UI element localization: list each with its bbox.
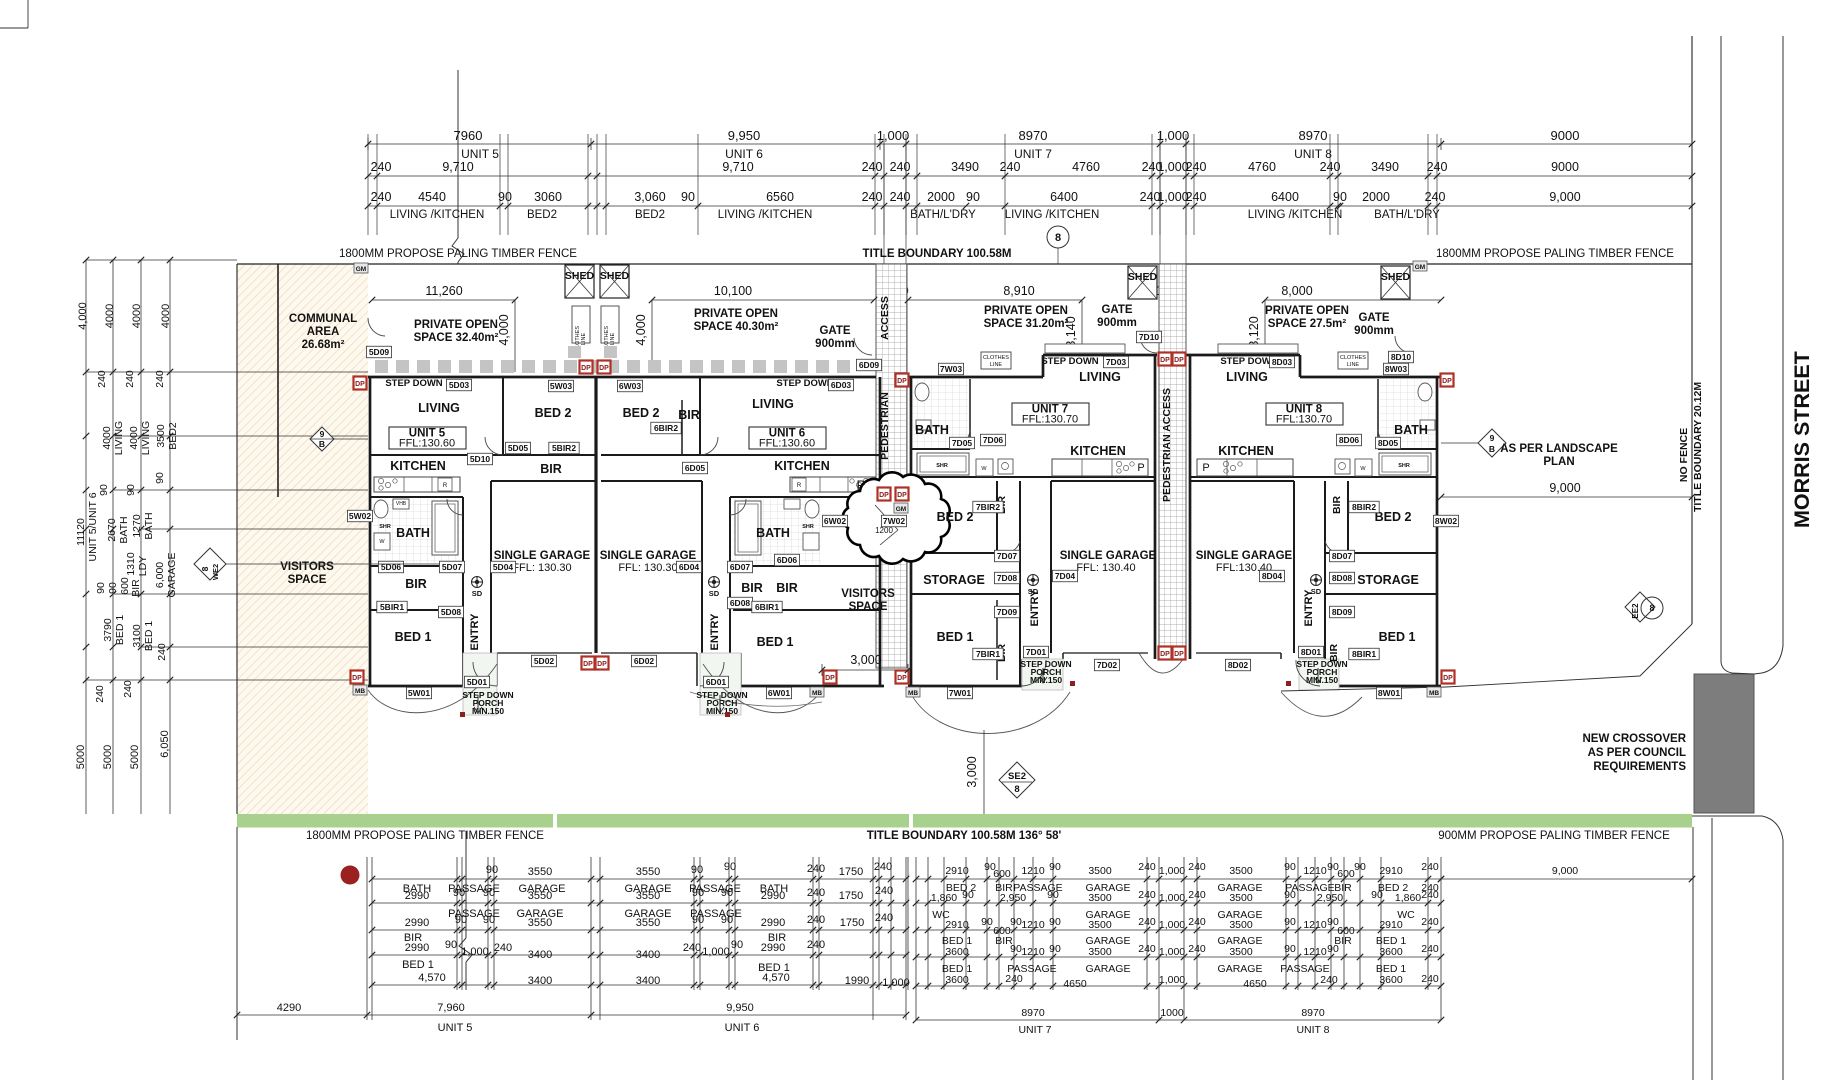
porch step dot u7	[1070, 681, 1075, 686]
u8 top wall east part	[1300, 376, 1441, 379]
b2 vline	[1440, 857, 1442, 1020]
u5 west wall	[369, 377, 372, 687]
svg-text:240: 240	[1138, 916, 1156, 928]
west neighbour break line upper	[457, 70, 459, 238]
svg-text:3550: 3550	[636, 866, 660, 878]
svg-text:1,000: 1,000	[1157, 190, 1188, 204]
svg-text:7D07: 7D07	[997, 551, 1018, 561]
left dim vline	[112, 260, 114, 814]
svg-text:BED 1: BED 1	[937, 630, 974, 644]
section 9B left	[310, 427, 334, 451]
shed	[600, 265, 629, 298]
door tag 8D03	[1269, 356, 1294, 368]
svg-text:3600: 3600	[1379, 946, 1403, 958]
deck squares unit7 gate path	[0, 0, 1, 1]
svg-text:SE2: SE2	[1008, 771, 1026, 782]
svg-text:DP: DP	[599, 365, 609, 372]
u7 bed2 bir wall	[996, 481, 998, 551]
u8 west wall	[1189, 355, 1192, 659]
svg-text:90: 90	[1010, 916, 1022, 928]
u5 bath fixtures	[374, 500, 388, 518]
u5 wall bir bottom	[370, 609, 460, 611]
door tag 8W02	[1433, 515, 1458, 527]
b1 vline	[699, 857, 701, 990]
u6 porch jambs	[696, 653, 698, 686]
svg-text:B: B	[319, 439, 325, 449]
b2 hline	[916, 985, 1441, 987]
door tag 7D02	[1094, 659, 1119, 671]
svg-text:6400: 6400	[1271, 190, 1299, 204]
pedestrian access strip 2	[1159, 264, 1186, 659]
svg-text:BED 1: BED 1	[143, 621, 155, 652]
right 9000 dim	[1441, 496, 1692, 498]
top dim row1 tick	[367, 138, 369, 150]
svg-text:LIVING /KITCHEN: LIVING /KITCHEN	[1248, 209, 1343, 221]
b1 hline 1015	[237, 1014, 906, 1016]
svg-text:SHED: SHED	[600, 270, 630, 282]
svg-text:CLOTHES: CLOTHES	[1340, 355, 1366, 361]
svg-text:DP: DP	[825, 675, 835, 682]
u8 storage bottom	[1325, 593, 1437, 595]
dp marker	[1441, 374, 1454, 387]
svg-text:240: 240	[807, 939, 825, 951]
svg-text:LIVING: LIVING	[1226, 370, 1268, 384]
svg-text:8D01: 8D01	[1301, 647, 1322, 657]
top dim row1 tick	[1159, 138, 1161, 150]
svg-text:7W01: 7W01	[949, 688, 971, 698]
svg-text:FFL:130.70: FFL:130.70	[1276, 414, 1332, 426]
door tag 7D05	[949, 437, 974, 449]
svg-text:9,000: 9,000	[1549, 190, 1580, 204]
svg-text:1,000: 1,000	[882, 977, 910, 989]
smoke detector	[472, 577, 483, 599]
svg-text:8D10: 8D10	[1391, 352, 1412, 362]
door tag 5D08	[438, 606, 463, 618]
svg-text:1,000: 1,000	[1159, 919, 1185, 931]
svg-text:240: 240	[1188, 889, 1206, 901]
svg-text:BATH/L'DRY: BATH/L'DRY	[1374, 209, 1440, 221]
u5 bath tile	[372, 499, 460, 564]
b1 hline	[372, 954, 906, 956]
svg-text:4650: 4650	[1063, 978, 1087, 990]
porch step dot u6	[725, 712, 730, 717]
svg-text:SPACE 27.5m²: SPACE 27.5m²	[1268, 318, 1347, 330]
svg-text:240: 240	[1186, 190, 1207, 204]
svg-text:240: 240	[890, 190, 911, 204]
street corner mark top-left	[27, 0, 29, 28]
svg-text:90: 90	[1049, 943, 1061, 955]
svg-text:10,100: 10,100	[714, 284, 752, 298]
clothes line box h	[981, 352, 1011, 369]
top dim ext line	[1004, 134, 1006, 235]
dp marker	[598, 361, 611, 374]
svg-text:5D10: 5D10	[470, 454, 491, 464]
svg-text:240: 240	[1188, 916, 1206, 928]
svg-text:4000: 4000	[131, 304, 143, 328]
svg-text:8W02: 8W02	[1435, 516, 1457, 526]
b2 hline	[916, 956, 1441, 958]
svg-text:1210: 1210	[1303, 865, 1327, 877]
svg-text:SHR: SHR	[802, 524, 814, 530]
svg-text:1210: 1210	[1021, 865, 1045, 877]
top dim ext line	[1185, 134, 1187, 235]
svg-text:3550: 3550	[636, 917, 660, 929]
svg-text:240: 240	[875, 885, 893, 897]
red marker dot	[341, 866, 360, 885]
svg-text:8: 8	[1055, 232, 1061, 244]
visitors dim 3000 line	[822, 669, 908, 671]
svg-text:3550: 3550	[528, 917, 552, 929]
u8 kitchen counter	[1197, 459, 1293, 476]
u8 step platform	[1218, 344, 1298, 353]
svg-text:240: 240	[1320, 974, 1338, 986]
u5 wall bath top	[370, 496, 463, 498]
svg-text:AS PER LANDSCAPE: AS PER LANDSCAPE	[1500, 443, 1618, 455]
top dim ext line	[507, 134, 509, 235]
svg-text:90: 90	[692, 914, 704, 926]
svg-text:90: 90	[1354, 861, 1366, 873]
svg-text:KITCHEN: KITCHEN	[1070, 444, 1126, 458]
svg-text:900mm: 900mm	[1097, 317, 1137, 329]
b2 hline 1020	[916, 1019, 1441, 1021]
dp marker	[896, 488, 909, 501]
svg-text:BED2: BED2	[167, 422, 179, 450]
dp marker	[1442, 671, 1455, 684]
svg-text:1310: 1310	[125, 552, 137, 576]
u7 garage west wall	[1050, 481, 1052, 653]
left dim hline	[141, 528, 368, 530]
svg-text:KITCHEN: KITCHEN	[1218, 444, 1274, 458]
svg-text:4760: 4760	[1248, 160, 1276, 174]
svg-text:240: 240	[874, 861, 892, 873]
svg-text:90: 90	[483, 914, 495, 926]
svg-text:5000: 5000	[75, 745, 87, 769]
b2 vline	[986, 857, 988, 990]
b2 vline	[998, 857, 1000, 990]
pos vdim 4000 u6	[651, 300, 653, 372]
top dim row1 tick	[1440, 138, 1442, 150]
svg-text:6W03: 6W03	[619, 381, 641, 391]
svg-text:EE2: EE2	[1631, 603, 1640, 619]
u6 living door arc	[700, 437, 718, 455]
svg-text:90: 90	[724, 861, 736, 873]
door tag 7D08	[994, 572, 1019, 584]
svg-text:90: 90	[1327, 943, 1339, 955]
u7 w box	[976, 459, 993, 476]
u5 porch	[463, 653, 497, 715]
b2 vline	[1196, 857, 1198, 990]
door tag 7BIR2	[973, 501, 1003, 513]
svg-text:11120: 11120	[75, 518, 87, 546]
b2 hline	[916, 878, 1441, 880]
b2 vline	[927, 857, 929, 990]
u8 bed2 bottom	[1325, 552, 1437, 554]
svg-text:7D03: 7D03	[1106, 357, 1127, 367]
b2 vline	[1427, 857, 1429, 990]
svg-text:SPACE 32.40m²: SPACE 32.40m²	[414, 332, 499, 344]
u7 bed2 bottom	[911, 552, 1020, 554]
dp marker	[896, 671, 909, 684]
door tag 7D10	[1136, 331, 1161, 343]
svg-text:3500: 3500	[1088, 919, 1112, 931]
u5 garage walls	[490, 481, 492, 653]
svg-text:LIVING: LIVING	[418, 401, 460, 415]
svg-text:GM: GM	[356, 266, 366, 273]
door tag 5BIR1	[377, 601, 407, 613]
svg-text:WE2: WE2	[211, 564, 220, 580]
u7 toilet	[915, 383, 929, 401]
u6 garage walls	[701, 481, 703, 653]
util box MB	[810, 687, 824, 697]
porch step dot u5	[460, 712, 465, 717]
svg-text:P: P	[1137, 462, 1144, 474]
u8 bottom wall	[1320, 685, 1441, 688]
door tag 8BIR2	[1349, 501, 1379, 513]
svg-text:6D04: 6D04	[679, 562, 700, 572]
svg-text:STEP DOWN: STEP DOWN	[1041, 356, 1098, 367]
cloud 7W02 tag	[881, 515, 906, 527]
svg-text:ACCESS: ACCESS	[879, 296, 891, 340]
svg-text:DP: DP	[1443, 675, 1453, 682]
svg-text:3400: 3400	[636, 975, 660, 987]
svg-text:900mm: 900mm	[1354, 325, 1394, 337]
svg-text:ENTRY: ENTRY	[709, 613, 721, 651]
svg-text:DP: DP	[1442, 378, 1452, 385]
svg-text:2910: 2910	[945, 919, 969, 931]
svg-text:4,000: 4,000	[497, 314, 511, 345]
svg-text:NEW CROSSOVER: NEW CROSSOVER	[1582, 733, 1686, 745]
svg-text:MIN.150: MIN.150	[1306, 675, 1338, 685]
u7 top wall living	[1043, 354, 1157, 357]
pos dim 10100 line	[652, 299, 874, 301]
svg-text:90: 90	[453, 887, 465, 899]
dp marker	[878, 488, 891, 501]
svg-text:3490: 3490	[1371, 160, 1399, 174]
svg-text:6D01: 6D01	[706, 677, 727, 687]
u6 wall bir bottom	[733, 609, 880, 611]
door tag 6D03	[828, 379, 853, 391]
u8 porch jambs	[1319, 659, 1321, 686]
b1 vline	[693, 857, 695, 990]
util box MB	[906, 687, 920, 697]
svg-text:5D02: 5D02	[534, 656, 555, 666]
u8 corridor wall	[1324, 481, 1326, 686]
svg-text:6BIR1: 6BIR1	[755, 602, 779, 612]
svg-text:R: R	[797, 483, 802, 489]
svg-text:240: 240	[1138, 943, 1156, 955]
svg-text:1750: 1750	[840, 917, 864, 929]
b1 hline	[372, 878, 906, 880]
u6 wall mid horiz	[601, 454, 880, 456]
svg-text:90: 90	[107, 582, 119, 594]
svg-text:90: 90	[1010, 943, 1022, 955]
util box GM	[894, 503, 908, 513]
svg-text:240: 240	[1421, 943, 1439, 955]
u56 bottom wall bed1-5	[368, 685, 463, 688]
svg-text:BED 1: BED 1	[1379, 630, 1416, 644]
u7 shr row wall	[911, 476, 1155, 478]
svg-text:BIR: BIR	[405, 577, 427, 591]
svg-text:3,120: 3,120	[1247, 316, 1261, 347]
svg-text:3400: 3400	[528, 949, 552, 961]
door tag 6D02	[631, 655, 656, 667]
door tag 5D06	[378, 561, 403, 573]
svg-text:4000: 4000	[104, 304, 116, 328]
svg-text:1,000: 1,000	[702, 946, 730, 958]
u8 sink box	[1335, 459, 1350, 474]
u7 top wall west part	[908, 376, 1043, 379]
b2 vline	[1183, 857, 1185, 1020]
top dim ext line	[605, 134, 607, 235]
b1 vline	[734, 857, 736, 990]
svg-text:240: 240	[371, 190, 392, 204]
svg-text:5W01: 5W01	[408, 688, 430, 698]
svg-text:MB: MB	[812, 690, 822, 697]
u8 d07 arc	[1325, 541, 1343, 553]
svg-text:UNIT 5: UNIT 5	[461, 147, 499, 161]
svg-text:90: 90	[681, 190, 695, 204]
svg-text:DP: DP	[581, 365, 591, 372]
svg-text:SHR: SHR	[936, 463, 948, 469]
se2 dim line	[983, 730, 985, 814]
door tag 5D05	[505, 442, 530, 454]
b2 vline	[1380, 857, 1382, 990]
svg-text:DP: DP	[1160, 357, 1170, 364]
b1 vline	[366, 857, 368, 1020]
svg-text:B: B	[1489, 444, 1495, 454]
svg-text:2990: 2990	[761, 942, 785, 954]
svg-text:3600: 3600	[945, 946, 969, 958]
pedestrian access strip 1	[876, 264, 907, 668]
door tag 7BIR1	[973, 648, 1003, 660]
svg-text:FFL:130.60: FFL:130.60	[399, 438, 455, 450]
svg-text:SPACE 31.20m²: SPACE 31.20m²	[984, 318, 1069, 330]
svg-text:BED 2: BED 2	[937, 510, 974, 524]
svg-text:5BIR2: 5BIR2	[552, 443, 576, 453]
svg-text:5000: 5000	[129, 745, 141, 769]
svg-text:GATE: GATE	[1358, 312, 1389, 324]
u8 toilet	[1418, 383, 1432, 401]
svg-text:8970: 8970	[1301, 1007, 1325, 1019]
svg-text:8,000: 8,000	[1281, 284, 1312, 298]
kitchen R u6	[792, 478, 806, 491]
b1 vline	[599, 857, 601, 1020]
svg-text:90: 90	[731, 939, 743, 951]
door tag 8W03	[1383, 363, 1408, 375]
svg-text:DP: DP	[879, 492, 889, 499]
svg-text:9,950: 9,950	[726, 1002, 754, 1014]
door tag 8D02	[1225, 659, 1250, 671]
svg-text:3,000: 3,000	[850, 653, 881, 667]
svg-text:240: 240	[1186, 160, 1207, 174]
dp marker	[1159, 353, 1172, 366]
svg-text:GATE: GATE	[819, 325, 850, 337]
u8 step wall	[1299, 355, 1302, 377]
svg-text:90: 90	[455, 914, 467, 926]
door tag 5W02	[347, 510, 372, 522]
dp marker	[1173, 353, 1186, 366]
svg-text:1,000: 1,000	[1157, 128, 1190, 143]
svg-text:BIR: BIR	[741, 581, 763, 595]
door tag 5D09	[366, 346, 391, 358]
svg-text:STORAGE: STORAGE	[1357, 573, 1419, 587]
porch arrow u6	[716, 695, 724, 713]
svg-text:BATH: BATH	[143, 512, 155, 539]
boundary splay corner	[1640, 624, 1692, 676]
svg-text:8BIR1: 8BIR1	[1352, 649, 1376, 659]
top dim row1 tick	[590, 138, 592, 150]
u5 entry door arc	[473, 662, 497, 686]
svg-text:UNIT 6: UNIT 6	[725, 1022, 760, 1034]
svg-text:W: W	[379, 539, 385, 545]
svg-text:7W03: 7W03	[940, 364, 962, 374]
svg-text:BIR: BIR	[678, 408, 700, 422]
communal/visitors hatched ground	[237, 264, 368, 814]
green title-boundary fence band seg1	[237, 814, 553, 828]
svg-text:W: W	[981, 466, 987, 472]
b2 vline	[1158, 857, 1160, 1020]
svg-text:90: 90	[445, 939, 457, 951]
svg-text:2990: 2990	[405, 917, 429, 929]
svg-text:LINE: LINE	[581, 333, 587, 346]
svg-text:SD: SD	[709, 589, 720, 598]
b2 vline	[943, 857, 945, 990]
svg-text:90: 90	[1284, 861, 1296, 873]
svg-text:8: 8	[200, 566, 210, 571]
u7 garage front	[1063, 652, 1148, 654]
svg-text:LINE: LINE	[990, 362, 1003, 368]
svg-text:8W01: 8W01	[1378, 688, 1400, 698]
svg-text:BATH: BATH	[756, 526, 790, 540]
svg-text:240: 240	[154, 370, 166, 388]
svg-text:SHED: SHED	[1128, 271, 1158, 283]
svg-text:7D08: 7D08	[997, 573, 1018, 583]
u5 garage front	[497, 652, 592, 654]
b2 vline	[1343, 857, 1345, 990]
top dim ext line	[1337, 134, 1339, 235]
svg-text:AREA: AREA	[307, 326, 340, 338]
svg-text:GARAGE: GARAGE	[1086, 963, 1131, 975]
drive line u6-visitor	[690, 692, 822, 706]
svg-text:4540: 4540	[418, 190, 446, 204]
svg-text:VHB: VHB	[396, 501, 407, 507]
u6 bath tile	[733, 499, 821, 564]
u8 bed2 bir wall	[1347, 481, 1349, 551]
door tag 6BIR1	[752, 601, 782, 613]
door tag 5D02	[531, 655, 556, 667]
crossover bottom kerb	[1692, 815, 1762, 817]
svg-text:LINE: LINE	[610, 333, 616, 346]
u7 shr box	[917, 453, 969, 475]
util box GM	[354, 263, 368, 273]
b1 vline	[461, 857, 463, 990]
door tag 5W03	[548, 380, 573, 392]
svg-text:BED 2: BED 2	[623, 406, 660, 420]
svg-text:VISITORS: VISITORS	[280, 561, 334, 573]
svg-text:2,950: 2,950	[1000, 892, 1026, 904]
svg-text:90: 90	[483, 887, 495, 899]
svg-text:BED 1: BED 1	[402, 959, 434, 971]
svg-text:STEP DOWN: STEP DOWN	[776, 378, 833, 389]
door tag 5D03	[446, 379, 471, 391]
u8 w box	[1355, 459, 1372, 476]
u7 corridor wall	[1019, 481, 1021, 686]
west dim border below fence	[236, 827, 238, 1040]
b1 vline	[812, 857, 814, 990]
svg-text:DP: DP	[352, 675, 362, 682]
svg-text:PRIVATE OPEN: PRIVATE OPEN	[414, 319, 498, 331]
top dim ext line	[874, 134, 876, 235]
